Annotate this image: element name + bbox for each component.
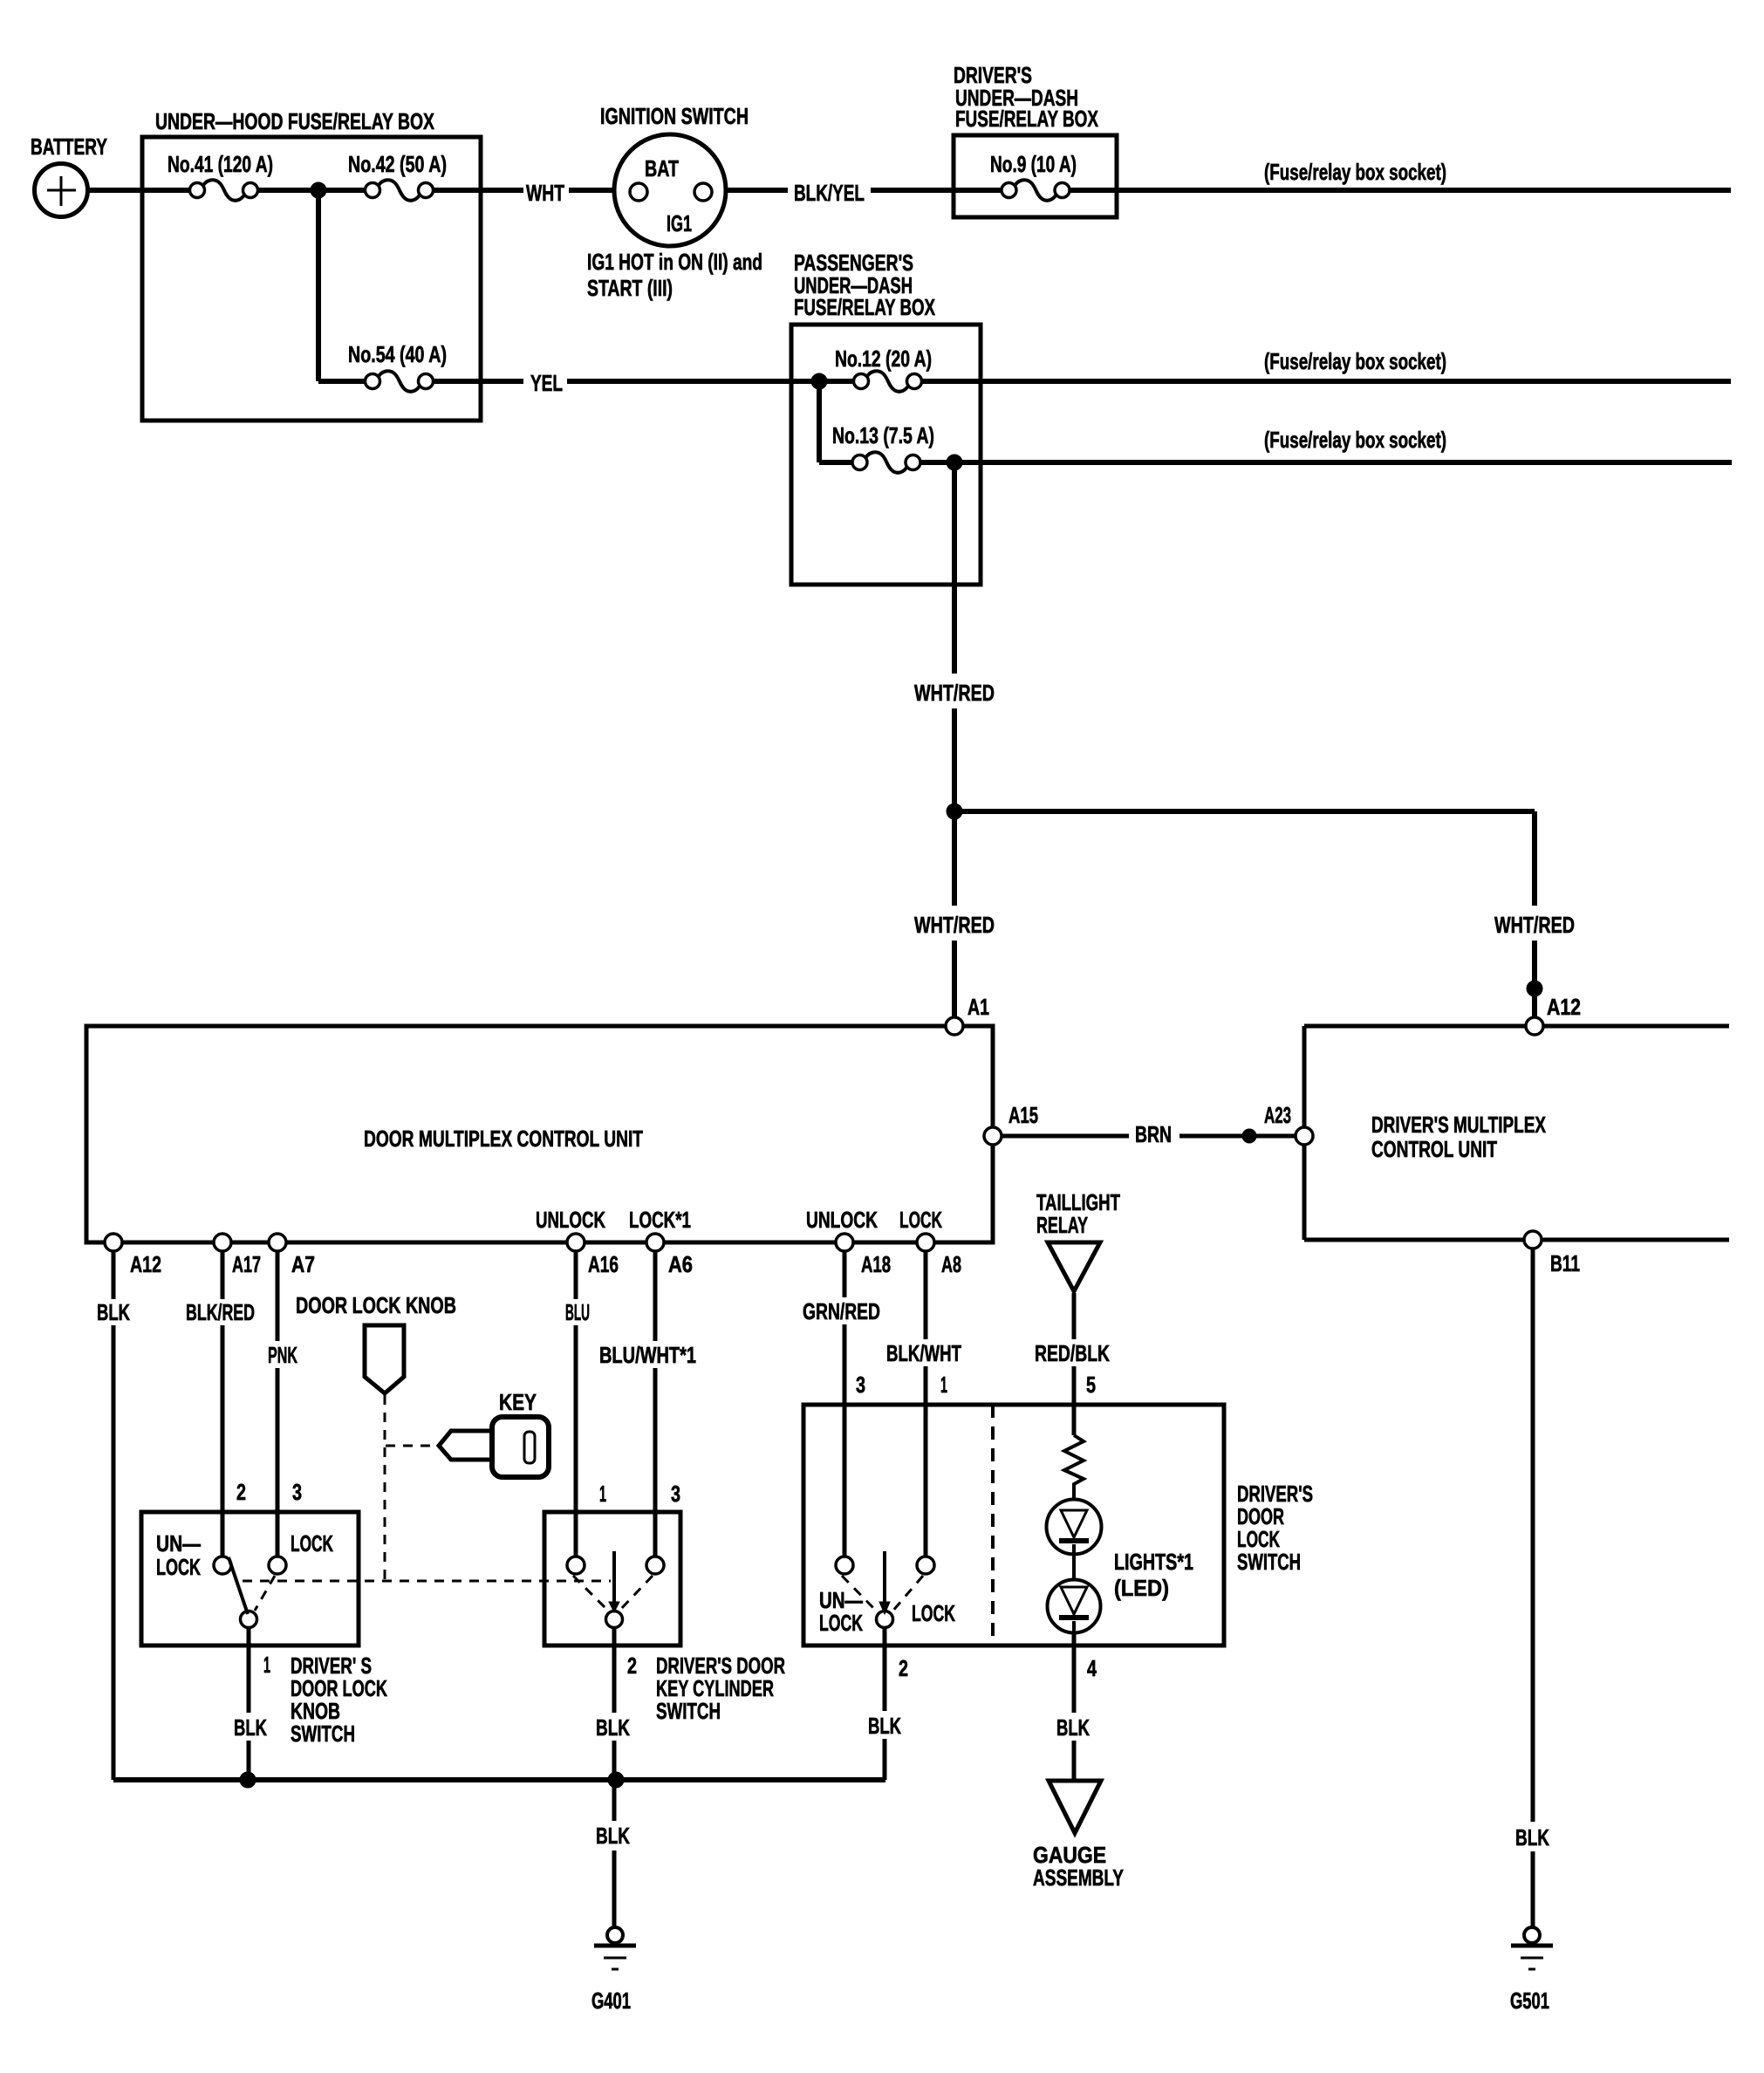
svg-text:1: 1 [940,1372,947,1398]
svg-text:IG1 HOT in ON (II) and: IG1 HOT in ON (II) and [587,249,762,275]
svg-text:BLK: BLK [868,1713,901,1739]
svg-text:A8: A8 [941,1251,961,1277]
svg-text:A1: A1 [967,994,989,1020]
svg-text:BLK/YEL: BLK/YEL [794,180,865,206]
svg-text:2: 2 [627,1652,637,1679]
svg-text:A23: A23 [1264,1102,1291,1128]
svg-text:BLU/WHT*1: BLU/WHT*1 [599,1342,696,1368]
svg-text:3: 3 [292,1479,302,1505]
svg-text:KEY: KEY [499,1389,537,1415]
svg-text:LOCK: LOCK [291,1530,333,1556]
svg-text:A17: A17 [232,1251,261,1277]
svg-text:2: 2 [236,1479,246,1505]
svg-text:BLK/RED: BLK/RED [186,1299,255,1325]
svg-text:BLK: BLK [1515,1824,1549,1851]
svg-text:B11: B11 [1550,1250,1580,1276]
svg-text:A12: A12 [130,1251,161,1277]
svg-text:LIGHTS*1: LIGHTS*1 [1114,1549,1193,1575]
svg-text:UNLOCK: UNLOCK [536,1207,605,1233]
svg-text:No.13 (7.5 A): No.13 (7.5 A) [832,422,934,448]
svg-text:RELAY: RELAY [1036,1212,1088,1238]
svg-text:No.42 (50 A): No.42 (50 A) [348,151,447,177]
svg-text:DOOR MULTIPLEX CONTROL UNIT: DOOR MULTIPLEX CONTROL UNIT [364,1125,643,1152]
svg-text:RED/BLK: RED/BLK [1035,1340,1110,1366]
svg-text:BRN: BRN [1135,1121,1172,1147]
svg-text:A15: A15 [1008,1102,1038,1128]
svg-text:UNLOCK: UNLOCK [806,1207,878,1233]
svg-text:G401: G401 [591,1987,631,2014]
svg-text:DRIVER'S MULTIPLEX: DRIVER'S MULTIPLEX [1371,1112,1546,1138]
svg-text:No.9 (10 A): No.9 (10 A) [990,151,1077,177]
svg-text:1: 1 [263,1652,270,1678]
svg-text:BAT: BAT [645,155,679,181]
svg-text:YEL: YEL [530,370,563,396]
svg-text:START (III): START (III) [587,275,673,301]
svg-text:(Fuse/relay box socket): (Fuse/relay box socket) [1264,427,1446,453]
svg-text:WHT: WHT [526,180,564,206]
svg-text:SWITCH: SWITCH [656,1698,721,1724]
svg-text:LOCK: LOCK [819,1610,863,1636]
svg-text:G501: G501 [1510,1987,1549,2014]
svg-text:A12: A12 [1547,994,1581,1020]
svg-text:3: 3 [671,1481,680,1507]
svg-text:DOOR LOCK KNOB: DOOR LOCK KNOB [296,1292,456,1318]
svg-text:PNK: PNK [268,1342,297,1368]
svg-text:ASSEMBLY: ASSEMBLY [1033,1864,1124,1891]
svg-text:3: 3 [856,1372,865,1398]
svg-text:4: 4 [1087,1655,1097,1681]
svg-text:SWITCH: SWITCH [291,1721,355,1747]
svg-text:2: 2 [899,1655,908,1681]
svg-text:WHT/RED: WHT/RED [914,680,995,706]
svg-text:BLU: BLU [565,1299,590,1325]
svg-text:LOCK: LOCK [912,1600,955,1626]
svg-text:IGNITION SWITCH: IGNITION SWITCH [600,103,749,129]
svg-text:A18: A18 [861,1251,891,1277]
svg-text:WHT/RED: WHT/RED [1494,912,1575,938]
svg-text:(LED): (LED) [1114,1575,1169,1601]
svg-text:IG1: IG1 [667,210,692,236]
svg-text:BLK: BLK [596,1714,630,1741]
svg-text:LOCK*1: LOCK*1 [629,1207,691,1233]
svg-text:BLK: BLK [97,1299,130,1325]
svg-text:No.41 (120 A): No.41 (120 A) [168,151,273,177]
svg-text:SWITCH: SWITCH [1237,1549,1301,1575]
svg-text:No.12 (20 A): No.12 (20 A) [835,345,932,372]
svg-text:BLK: BLK [1056,1714,1090,1741]
svg-text:BLK: BLK [234,1714,267,1741]
svg-text:5: 5 [1086,1372,1096,1398]
svg-text:CONTROL UNIT: CONTROL UNIT [1371,1136,1497,1162]
svg-text:WHT/RED: WHT/RED [914,912,995,938]
svg-text:A7: A7 [291,1251,315,1277]
svg-text:FUSE/RELAY BOX: FUSE/RELAY BOX [794,294,935,320]
svg-text:FUSE/RELAY BOX: FUSE/RELAY BOX [955,106,1098,132]
svg-text:BLK: BLK [596,1823,630,1849]
svg-text:BLK/WHT: BLK/WHT [886,1340,961,1366]
svg-text:A6: A6 [668,1251,693,1277]
svg-text:UNDER—HOOD FUSE/RELAY BOX: UNDER—HOOD FUSE/RELAY BOX [155,108,434,134]
svg-text:LOCK: LOCK [899,1207,942,1233]
svg-text:UN—: UN— [156,1530,201,1556]
svg-text:GRN/RED: GRN/RED [803,1298,880,1324]
svg-text:A16: A16 [588,1251,619,1277]
svg-text:LOCK: LOCK [156,1554,201,1580]
svg-text:BATTERY: BATTERY [31,133,107,160]
svg-text:1: 1 [599,1481,606,1507]
svg-text:(Fuse/relay box socket): (Fuse/relay box socket) [1264,159,1446,185]
svg-text:No.54 (40 A): No.54 (40 A) [348,341,447,367]
svg-text:(Fuse/relay box socket): (Fuse/relay box socket) [1264,348,1446,374]
